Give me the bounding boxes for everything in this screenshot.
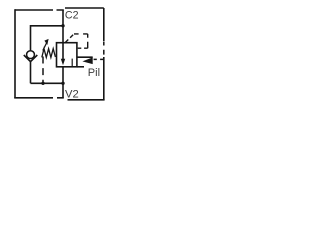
svg-text:V2: V2 [65, 89, 79, 101]
svg-text:C2: C2 [65, 10, 79, 22]
port label V2 [65, 89, 79, 101]
pilot area ratio dashed box (top, right, bottom edges) [74, 34, 88, 48]
relief valve V1 bottom edge extension [77, 66, 84, 68]
envelope bottom edge [14, 97, 64, 99]
check valve CV1 seat [24, 55, 38, 62]
wire C2 riser (x=63 from top edge to valve top) [62, 10, 64, 43]
relief valve V1 seat line [71, 59, 73, 67]
svg-text:Pil: Pil [88, 67, 100, 79]
pilot dashed line from arrow to Pil port [94, 58, 104, 60]
spring adjustment arrow [43, 39, 49, 51]
wire drain line (y=83) to valve centerline [31, 82, 64, 84]
node junction at (63,83) [61, 82, 64, 85]
envelope left edge [14, 9, 16, 98]
port V2 rail bottom edge (y=100) [68, 99, 105, 101]
port C2 rail top edge (y=8) [65, 7, 104, 9]
wire check valve upper lead (x=30.5) [30, 25, 32, 51]
pilot actuation line from valve to Pil [77, 56, 93, 58]
check valve CV1 ball [27, 51, 35, 59]
node junction at (43,83) [41, 82, 44, 85]
envelope left box top edge [15, 9, 64, 11]
wire valve outlet down to envelope bottom (x=63) [62, 67, 64, 98]
pilot dashed line up to spring (x=43) [42, 57, 44, 84]
relief valve V1 body [57, 43, 77, 67]
pilot actuation arrow (filled) [82, 57, 92, 64]
spring (adjustable) zigzag [42, 49, 56, 58]
wire check valve lower lead down to drain line [30, 62, 32, 84]
node junction at (63,26) [61, 24, 64, 27]
port label C2 [65, 10, 79, 22]
port label Pil [88, 67, 100, 79]
pilot dashed diagonal from valve to ratio box [65, 34, 74, 43]
Pil port rail right edge (x=103.8, partly dashed) [103, 8, 105, 100]
relief valve V1 flow arrow (down) [61, 43, 65, 65]
wire branch to check valve (y=26) [31, 25, 64, 27]
